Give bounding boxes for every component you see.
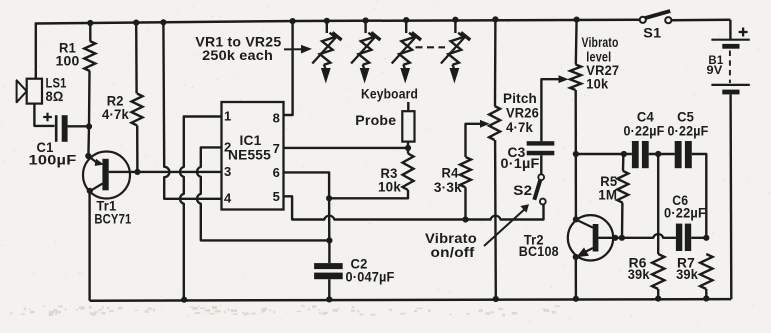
wire VR27 top feed xyxy=(575,20,578,65)
switch S2 blade xyxy=(534,180,540,200)
label 0·22µF (C5) xyxy=(668,123,709,138)
label 250k each xyxy=(202,48,273,63)
wire IC1 pin 6 down to threshold node xyxy=(284,172,330,198)
label S1 xyxy=(643,26,661,41)
speaker LS1 cone xyxy=(17,80,27,102)
potentiometer VR4 (keyboard, VR25) xyxy=(441,20,470,84)
potentiometer VR3 (keyboard) xyxy=(392,20,421,83)
probe body xyxy=(402,111,414,141)
pin 3 label xyxy=(224,164,231,179)
wire IC1 pin 4 to top rail (reset) xyxy=(163,22,221,199)
wire Tr2 collector node to C4 xyxy=(576,153,632,155)
node bottom rail junction (VR26) xyxy=(493,296,499,302)
capacitor C4 right plate xyxy=(642,141,649,168)
svg-text:8Ω: 8Ω xyxy=(46,89,64,104)
label 0·22µF (C6) xyxy=(664,205,706,220)
label 8&#937; xyxy=(46,89,64,104)
wire R5 bottom to Tr2 base xyxy=(621,203,624,238)
transistor Tr2 base bar xyxy=(593,224,599,252)
wire IC1 pin 5 across (control voltage) xyxy=(284,196,544,219)
svg-text:10k: 10k xyxy=(586,77,608,92)
label Vibrato (VR27) xyxy=(582,35,619,50)
svg-text:1: 1 xyxy=(224,109,231,124)
svg-text:39k: 39k xyxy=(676,267,698,282)
label Keyboard xyxy=(361,87,418,102)
svg-text:IC1: IC1 xyxy=(240,133,262,148)
wire Tr2 base to C6 xyxy=(598,234,676,238)
battery B1 cell1 long plate xyxy=(711,39,749,41)
wire IC1 pin 8 to top rail (Vcc) xyxy=(284,21,293,115)
svg-text:6: 6 xyxy=(273,165,280,180)
capacitor C6 right plate xyxy=(685,224,691,251)
label level xyxy=(586,50,611,65)
svg-text:0·22µF: 0·22µF xyxy=(624,123,665,138)
capacitor C6 left plate xyxy=(676,224,682,251)
wire left edge (top rail down to LS1) xyxy=(35,22,37,79)
label Pitch xyxy=(503,91,537,106)
wire probe to pin-7 node xyxy=(407,142,409,148)
label NE555 xyxy=(228,148,271,163)
svg-text:7: 7 xyxy=(273,141,280,156)
wire VR27 wiper down to C3 xyxy=(541,79,558,141)
capacitor C3 top plate xyxy=(527,141,555,145)
node base/R5 junction b xyxy=(619,235,625,241)
wire threshold node down to C2 node xyxy=(328,198,331,240)
svg-text:100: 100 xyxy=(56,54,80,69)
node probe/R3/pin7 junction xyxy=(405,145,411,151)
wire C1 to emitter node xyxy=(68,125,87,127)
svg-text:3·3k: 3·3k xyxy=(434,180,462,195)
svg-text:VR26: VR26 xyxy=(506,106,539,121)
label Vibrato (switch) xyxy=(425,231,477,246)
transistor Tr2 body xyxy=(568,215,613,260)
wire R1 bottom to emitter node xyxy=(88,71,91,126)
wire C3 to S2 xyxy=(540,155,542,174)
node Tr1 emitter junction xyxy=(85,153,91,159)
wire R5 top xyxy=(622,154,625,171)
switch S1 left contact xyxy=(640,17,646,23)
label VR26 xyxy=(506,106,539,121)
label C4 xyxy=(637,110,654,125)
svg-text:1M: 1M xyxy=(598,188,617,203)
label C3 xyxy=(508,145,526,160)
node emitter/C1 junction xyxy=(86,123,92,129)
wire R2 bottom to Tr1 base xyxy=(136,125,139,171)
node top rail junction (VR1) xyxy=(324,18,330,24)
svg-text:0·047µF: 0·047µF xyxy=(346,270,395,285)
pin 5 label xyxy=(273,189,280,204)
label S2 xyxy=(513,183,532,198)
battery B1 cell2 short plate xyxy=(722,90,739,95)
node top rail junction (VR4) xyxy=(452,17,458,23)
potentiometer VR27 (vibrato level) xyxy=(570,65,581,91)
node bottom rail junction (pin-1 ground) xyxy=(181,297,187,303)
node Tr2 collector junction xyxy=(573,216,579,222)
node top rail junction (VR26 feed) xyxy=(492,16,498,22)
wire C2 node to C2 top plate xyxy=(328,240,330,263)
svg-text:39k: 39k xyxy=(628,267,650,282)
wire dashed continuation VR3..VR25 xyxy=(416,46,446,48)
node C4/C5/R6 junction xyxy=(655,151,661,157)
capacitor C2 top plate xyxy=(314,263,343,269)
op-amp/timer IC1 NE555 outline xyxy=(222,102,284,210)
wiper arrow VR27 xyxy=(559,75,569,83)
label 3·3k (R4) xyxy=(434,180,462,195)
label Tr1 xyxy=(96,199,116,214)
label 0·047µF xyxy=(346,270,395,285)
node pin2/pin6/C2 junction xyxy=(326,237,332,243)
wire VR26 top feed xyxy=(494,19,497,106)
svg-text:100µF: 100µF xyxy=(29,152,77,167)
transistor Tr1 collector xyxy=(90,184,103,192)
svg-text:250k each: 250k each xyxy=(202,48,273,63)
capacitor C1 positive plate xyxy=(62,115,68,142)
label VR1 to VR25 xyxy=(195,35,281,50)
wire VR26 bottom to 0V rail xyxy=(494,140,497,299)
label 39k (R6) xyxy=(628,267,650,282)
switch S1 blade xyxy=(645,11,670,18)
wire R4 bottom xyxy=(464,187,466,219)
label 0·1µF xyxy=(501,156,540,171)
wire top supply rail (left section) xyxy=(36,20,641,24)
pin 4 label xyxy=(224,191,232,206)
capacitor C1 negative plate xyxy=(55,115,58,142)
wire R3 top xyxy=(407,148,409,154)
svg-text:4·7k: 4·7k xyxy=(506,120,533,135)
transistor Tr1 emitter (arrow into base, PNP) xyxy=(88,156,104,166)
label 100 xyxy=(56,54,80,69)
svg-text:5: 5 xyxy=(273,189,280,204)
resistor R4 xyxy=(460,157,471,187)
label BC108 xyxy=(519,244,559,259)
wire R6 bottom xyxy=(657,289,659,299)
capacitor C2 bottom plate xyxy=(314,273,343,280)
label C5 xyxy=(677,110,694,125)
wire C5 right down to C6/R7 node xyxy=(692,154,707,238)
node Tr1 base junction xyxy=(134,169,140,175)
node bottom rail junction (C2) xyxy=(326,296,332,302)
node top rail junction (VR2) xyxy=(363,17,369,23)
label BCY71 xyxy=(94,212,131,227)
pin 6 label xyxy=(273,165,280,180)
switch S2 top contact xyxy=(538,174,544,180)
wire LS1 to C1 xyxy=(34,104,54,126)
resistor R5 xyxy=(617,171,628,203)
wire R4 top to VR26 wiper xyxy=(466,124,481,157)
svg-text:NE555: NE555 xyxy=(228,148,271,163)
node Tr1 collector corner xyxy=(87,188,93,194)
svg-text:BC108: BC108 xyxy=(519,244,559,259)
label 4·7k (R2) xyxy=(102,107,129,122)
node bottom rail junction (Tr2 emitter) xyxy=(573,296,579,302)
node top rail junction (VR27 feed) xyxy=(574,17,580,23)
label + (battery) xyxy=(739,28,748,37)
transistor Tr2 collector lead xyxy=(576,220,593,228)
label 39k (R7) xyxy=(676,267,698,282)
node VR27/C4-feed junction xyxy=(573,151,579,157)
label Tr2 xyxy=(524,232,544,247)
label Probe xyxy=(355,113,396,128)
label 1M xyxy=(598,188,617,203)
node top rail junction (R1) xyxy=(87,20,93,26)
capacitor C3 bottom plate xyxy=(527,151,555,156)
node top rail junction (VR3) xyxy=(403,17,409,23)
label 9V xyxy=(707,63,723,77)
label arrow to VR1 xyxy=(284,45,312,54)
node C6/R7 junction xyxy=(703,235,709,241)
svg-text:S2: S2 xyxy=(513,183,532,198)
node top rail junction (pin-4 reset feed) xyxy=(160,19,166,25)
wire IC1 pin 7 to probe/R3 node xyxy=(284,147,409,149)
capacitor C5 right plate xyxy=(685,141,692,168)
resistor R3 xyxy=(403,154,414,191)
node top rail junction (R2) xyxy=(133,20,139,26)
svg-text:Pitch: Pitch xyxy=(503,91,537,106)
label 10k (R3) xyxy=(378,180,401,195)
label R6 xyxy=(629,255,647,270)
label C6 xyxy=(672,193,688,208)
label 10k (VR27) xyxy=(586,77,608,92)
wire VR27 bottom to Tr2 collector xyxy=(575,90,578,219)
svg-text:8: 8 xyxy=(273,111,280,126)
node Tr2 emitter junction xyxy=(573,254,579,260)
svg-text:0·22µF: 0·22µF xyxy=(668,123,709,138)
capacitor C5 left plate xyxy=(675,141,682,168)
label R2 xyxy=(107,94,124,109)
wire IC1 pin 2 down and across to pin-6 node xyxy=(197,147,329,240)
svg-text:10k: 10k xyxy=(378,180,401,195)
wire Tr1 base to IC1 pin 3 xyxy=(109,171,222,173)
battery B1 cell2 long plate xyxy=(711,84,749,86)
resistor R7 xyxy=(700,254,712,289)
wire keyboard to probe xyxy=(407,102,409,111)
svg-text:S1: S1 xyxy=(643,26,661,41)
potentiometer VR1 (keyboard) xyxy=(312,21,341,84)
pin 2 label xyxy=(224,139,231,154)
label on/off xyxy=(431,245,475,260)
svg-text:0·1µF: 0·1µF xyxy=(501,156,540,171)
svg-text:Vibrato: Vibrato xyxy=(425,231,477,246)
node pin6/R3-bottom junction xyxy=(326,195,332,201)
pin 1 label xyxy=(224,109,231,124)
svg-text:on/off: on/off xyxy=(431,245,475,260)
wire R2 top xyxy=(135,23,138,94)
node bottom rail junction (R7) xyxy=(703,295,709,301)
wire IC1 pin 1 to 0V rail (ground) xyxy=(180,117,221,300)
wire top supply rail (right section, S1 to battery) xyxy=(671,19,730,22)
label R4 xyxy=(442,165,459,180)
svg-text:Vibrato: Vibrato xyxy=(582,35,619,50)
label R7 xyxy=(677,255,695,270)
node R5 top junction xyxy=(621,151,627,157)
transistor Tr2 emitter (arrow out, NPN) xyxy=(576,248,593,258)
wire R6 feed (C4/C5 node down) xyxy=(657,154,659,254)
svg-text:0·22µF: 0·22µF xyxy=(664,205,706,220)
label R3 xyxy=(381,166,398,181)
speaker LS1 frame xyxy=(27,79,42,104)
resistor R2 xyxy=(132,94,143,126)
label IC1 xyxy=(240,133,262,148)
label C2 xyxy=(351,257,368,272)
battery B1 internal dashed link xyxy=(729,51,731,84)
svg-text:3: 3 xyxy=(224,164,231,179)
label C1 xyxy=(37,140,54,155)
switch S1 right contact xyxy=(665,17,671,23)
pin 7 label xyxy=(273,141,280,156)
svg-text:Probe: Probe xyxy=(355,113,396,128)
label arrow to S2 xyxy=(484,204,529,246)
node top rail junction (pin-8 Vcc feed) xyxy=(290,18,296,24)
svg-text:4: 4 xyxy=(224,191,232,206)
wiper arrow VR26 xyxy=(480,120,490,128)
wire C6 right to R7 node xyxy=(691,237,706,239)
capacitor C1 plus sign xyxy=(43,113,52,122)
label 4·7k (VR26) xyxy=(506,120,533,135)
wire Tr1 collector to 0V rail xyxy=(88,191,90,301)
wire emitter node down xyxy=(87,126,90,156)
label R1 xyxy=(59,40,76,55)
wire R3 bottom to pin-6 node xyxy=(329,190,408,198)
svg-text:BCY71: BCY71 xyxy=(94,212,131,227)
battery B1 cell1 short plate xyxy=(722,44,739,49)
svg-text:R4: R4 xyxy=(442,165,459,180)
potentiometer VR2 (keyboard) xyxy=(351,21,380,84)
svg-text:Keyboard: Keyboard xyxy=(361,87,418,102)
label LS1 xyxy=(46,76,67,91)
node base/R5 junction a xyxy=(612,235,618,241)
wire bottom 0V rail xyxy=(90,299,732,301)
transistor Tr1 base bar xyxy=(102,159,108,191)
node R4 bottom junction xyxy=(462,216,468,222)
wire C2 bottom plate to 0V rail xyxy=(328,279,330,299)
svg-text:4·7k: 4·7k xyxy=(102,107,129,122)
node bottom rail junction (R6) xyxy=(655,296,661,302)
label 0·22µF (C4) xyxy=(624,123,665,138)
wire battery negative to 0V rail xyxy=(729,94,732,299)
wire Tr2 emitter to 0V rail xyxy=(575,257,578,299)
wire C4 to C5 xyxy=(649,153,675,155)
capacitor C4 left plate xyxy=(632,141,639,168)
switch S2 bottom contact xyxy=(540,199,546,205)
label VR27 xyxy=(586,63,619,78)
transistor Tr1 body xyxy=(83,152,130,199)
resistor R6 xyxy=(652,254,664,289)
label B1 xyxy=(708,53,723,67)
potentiometer VR26 (pitch) xyxy=(489,106,500,140)
wire R7 bottom xyxy=(705,289,707,299)
svg-text:9V: 9V xyxy=(707,63,723,77)
label 100µF xyxy=(29,152,77,167)
svg-text:2: 2 xyxy=(224,139,231,154)
wire R1 top xyxy=(89,23,91,41)
pin 8 label xyxy=(273,111,280,126)
resistor R1 xyxy=(84,41,95,71)
label R5 xyxy=(600,174,617,189)
wire battery top feed xyxy=(729,20,731,40)
